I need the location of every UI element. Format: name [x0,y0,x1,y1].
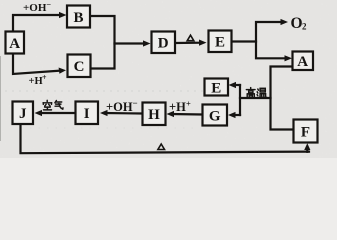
svg-text:A: A [297,54,308,70]
svg-text:−: − [47,0,52,9]
svg-text:H: H [148,107,160,123]
svg-text:+H: +H [29,76,43,87]
svg-text:I: I [84,106,90,122]
svg-text:B: B [73,10,83,26]
svg-text:E: E [215,35,225,51]
svg-text:D: D [158,36,169,52]
svg-text:2: 2 [302,22,307,32]
svg-text:A: A [9,36,20,52]
svg-text:C: C [74,59,85,75]
svg-text:−: − [133,98,138,108]
svg-text:+: + [186,99,191,109]
svg-text:+OH: +OH [23,2,47,14]
svg-text:F: F [301,124,310,140]
svg-text:+OH: +OH [106,100,133,114]
svg-text:+: + [42,73,47,82]
svg-text:G: G [209,108,221,124]
svg-text:J: J [19,106,27,122]
svg-text:O: O [291,15,303,32]
svg-text:E: E [211,80,221,96]
svg-text:+H: +H [169,100,186,114]
